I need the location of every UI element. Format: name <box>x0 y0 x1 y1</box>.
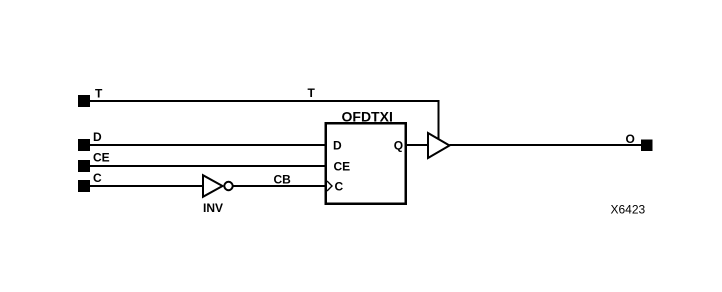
svg-text:C: C <box>93 171 102 185</box>
svg-text:X6423: X6423 <box>611 203 646 217</box>
wire Q <box>405 144 428 146</box>
svg-text:D: D <box>93 130 102 144</box>
svg-text:OFDTXI: OFDTXI <box>342 109 393 125</box>
output pin O <box>641 140 653 152</box>
svg-text:CE: CE <box>93 151 110 165</box>
wire T horizontal <box>90 100 439 102</box>
tristate buffer <box>428 133 450 158</box>
svg-text:CE: CE <box>334 160 351 174</box>
wire C <box>90 185 203 187</box>
wire T vertical <box>438 100 440 140</box>
svg-text:INV: INV <box>203 201 223 215</box>
svg-text:T: T <box>95 87 103 101</box>
wire O output <box>450 144 642 146</box>
svg-text:Q: Q <box>394 139 403 153</box>
wire D <box>90 144 326 146</box>
clock wedge C <box>327 181 332 191</box>
wire CE <box>90 165 326 167</box>
svg-text:C: C <box>335 180 344 194</box>
input pin T <box>78 95 90 107</box>
svg-text:CB: CB <box>274 173 292 187</box>
input pin D <box>78 139 90 151</box>
wire CB <box>233 185 326 187</box>
svg-text:D: D <box>333 139 342 153</box>
input pin CE <box>78 160 90 172</box>
svg-text:T: T <box>308 86 316 100</box>
flip-flop U1 OFDTXI box <box>326 123 406 204</box>
inverter INV <box>203 175 233 197</box>
input pin C <box>78 180 90 192</box>
svg-text:O: O <box>626 132 635 146</box>
